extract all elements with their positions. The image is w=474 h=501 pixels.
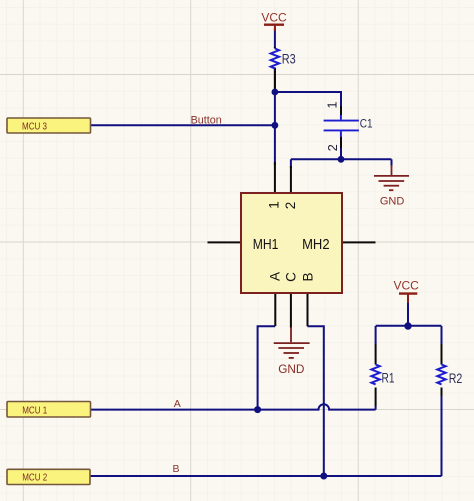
svg-text:C1: C1 (360, 118, 373, 131)
svg-text:MCU 2: MCU 2 (22, 472, 47, 483)
svg-text:GND: GND (278, 362, 304, 376)
svg-text:MCU 1: MCU 1 (22, 404, 47, 415)
svg-text:1: 1 (267, 201, 282, 209)
svg-text:R1: R1 (382, 370, 395, 386)
svg-text:A: A (268, 272, 283, 281)
svg-text:VCC: VCC (261, 11, 287, 25)
svg-text:2: 2 (283, 202, 298, 210)
svg-text:R3: R3 (282, 51, 296, 66)
svg-text:GND: GND (380, 196, 405, 208)
svg-text:B: B (173, 463, 180, 475)
svg-text:MH1: MH1 (253, 236, 279, 252)
svg-text:VCC: VCC (394, 279, 420, 293)
svg-text:R2: R2 (449, 371, 463, 387)
svg-text:1: 1 (326, 101, 340, 108)
svg-text:Button: Button (191, 115, 222, 127)
svg-text:B: B (301, 272, 316, 281)
svg-text:MCU 3: MCU 3 (22, 120, 47, 131)
svg-text:MH2: MH2 (302, 236, 329, 252)
svg-text:C: C (284, 272, 299, 282)
svg-text:A: A (174, 398, 181, 410)
svg-text:2: 2 (326, 144, 340, 151)
